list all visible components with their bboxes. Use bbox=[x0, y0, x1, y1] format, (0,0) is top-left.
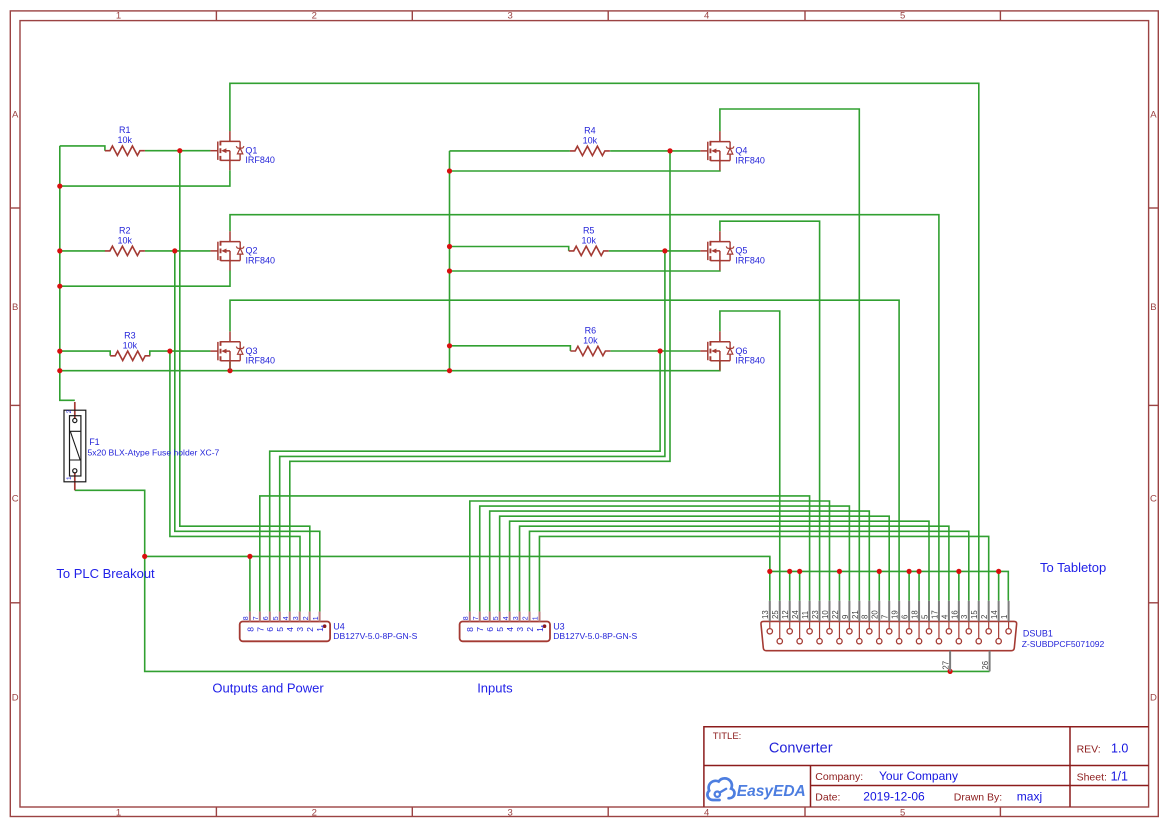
wire DSUB bus stub pin14 bbox=[998, 571, 1000, 600]
svg-text:2: 2 bbox=[523, 616, 530, 620]
svg-text:2: 2 bbox=[305, 627, 315, 632]
svg-text:8: 8 bbox=[243, 616, 250, 620]
wire net U3p5-DSUB bbox=[500, 516, 890, 611]
resistor R3 bbox=[110, 330, 150, 360]
svg-text:3: 3 bbox=[508, 11, 513, 22]
svg-text:4: 4 bbox=[704, 807, 709, 818]
connector DSUB1 bbox=[761, 601, 1105, 672]
title block bbox=[704, 727, 1149, 807]
svg-text:EasyEDA: EasyEDA bbox=[737, 783, 806, 800]
wire Q5 drain to DSUB pin23 bbox=[720, 221, 820, 601]
svg-text:D: D bbox=[12, 693, 19, 704]
svg-text:IRF840: IRF840 bbox=[246, 255, 276, 265]
resistor R6 bbox=[570, 326, 610, 356]
wire U4 pin8 drop bbox=[249, 556, 251, 611]
svg-text:Q2: Q2 bbox=[246, 246, 258, 256]
wire R5 input bbox=[450, 247, 569, 251]
svg-text:R2: R2 bbox=[119, 226, 131, 236]
svg-text:10k: 10k bbox=[123, 341, 138, 351]
svg-text:10k: 10k bbox=[581, 236, 596, 246]
svg-text:7: 7 bbox=[253, 616, 260, 620]
wire main bus PLC-DSUB bbox=[145, 556, 770, 571]
svg-text:Z-SUBDPCF5071092: Z-SUBDPCF5071092 bbox=[1022, 639, 1105, 649]
wire DSUB bus stub pin6 bbox=[908, 571, 910, 600]
wire R4 row bbox=[450, 150, 570, 152]
wire net U4p7-DSUBp11 bbox=[260, 496, 810, 612]
svg-text:F1: F1 bbox=[89, 437, 100, 447]
svg-text:4: 4 bbox=[285, 627, 295, 632]
svg-text:26: 26 bbox=[981, 661, 990, 670]
svg-text:B: B bbox=[12, 302, 18, 313]
wire DSUB bus stub pin18 bbox=[918, 571, 920, 600]
svg-text:Q5: Q5 bbox=[735, 246, 747, 256]
svg-text:REV:: REV: bbox=[1077, 743, 1101, 755]
wire DSUB bus stub pin22 bbox=[838, 571, 840, 600]
svg-text:7: 7 bbox=[475, 627, 485, 632]
svg-text:2: 2 bbox=[312, 807, 317, 818]
svg-text:10k: 10k bbox=[583, 136, 598, 146]
svg-text:1: 1 bbox=[116, 807, 121, 818]
transistor Q6 bbox=[700, 331, 765, 370]
wire R5 output to Q5 gate bbox=[609, 250, 701, 252]
svg-text:maxj: maxj bbox=[1017, 789, 1042, 803]
fuse F1 bbox=[64, 402, 220, 490]
wire Q4 source loop bbox=[450, 170, 720, 173]
svg-text:DSUB1: DSUB1 bbox=[1023, 628, 1053, 638]
svg-text:27: 27 bbox=[942, 661, 951, 670]
svg-text:8: 8 bbox=[861, 615, 870, 619]
svg-text:5: 5 bbox=[920, 614, 929, 619]
svg-text:18: 18 bbox=[910, 610, 919, 619]
wire net U3p6-DSUB bbox=[490, 511, 870, 611]
svg-text:14: 14 bbox=[990, 610, 999, 619]
wire Q2 source loop bbox=[60, 270, 230, 286]
svg-text:R1: R1 bbox=[119, 125, 131, 135]
transistor Q3 bbox=[210, 332, 275, 371]
wire R4 output to Q4 gate bbox=[610, 150, 700, 152]
wire net U3p4-DSUB bbox=[510, 521, 929, 611]
svg-text:Your Company: Your Company bbox=[879, 769, 958, 783]
svg-text:7: 7 bbox=[255, 627, 265, 632]
wire net R6-U4p6 bbox=[270, 351, 660, 612]
svg-text:10k: 10k bbox=[118, 135, 133, 145]
svg-text:1: 1 bbox=[66, 476, 73, 480]
resistor R1 bbox=[105, 125, 145, 156]
svg-text:5: 5 bbox=[900, 11, 905, 22]
svg-text:13: 13 bbox=[761, 610, 770, 619]
svg-text:11: 11 bbox=[801, 611, 810, 619]
svg-text:4: 4 bbox=[283, 616, 290, 620]
svg-text:Q4: Q4 bbox=[735, 146, 747, 156]
wire R1 output to Q1 gate bbox=[145, 150, 211, 152]
svg-text:5: 5 bbox=[493, 616, 500, 620]
wire right rail bbox=[449, 151, 451, 371]
wire net R3-U4p3 bbox=[170, 351, 300, 611]
connector U3 bbox=[460, 612, 638, 642]
svg-text:19: 19 bbox=[891, 610, 900, 619]
resistor R2 bbox=[105, 226, 145, 256]
wire R1 input bbox=[60, 146, 105, 151]
svg-text:2: 2 bbox=[525, 627, 535, 632]
svg-text:TITLE:: TITLE: bbox=[713, 731, 742, 742]
resistor R5 bbox=[569, 226, 609, 256]
svg-text:6: 6 bbox=[901, 615, 910, 619]
wire DSUB bus stub pin24 bbox=[799, 571, 801, 600]
wire left rail bbox=[60, 146, 75, 400]
svg-text:To Tabletop: To Tabletop bbox=[1040, 560, 1106, 575]
svg-text:1: 1 bbox=[533, 616, 540, 620]
transistor Q5 bbox=[700, 231, 765, 270]
wire R3 output jog bbox=[150, 351, 211, 356]
svg-text:Q6: Q6 bbox=[735, 346, 747, 356]
svg-text:3: 3 bbox=[295, 627, 305, 632]
svg-text:24: 24 bbox=[791, 610, 800, 619]
svg-text:1/1: 1/1 bbox=[1111, 769, 1128, 783]
svg-text:3: 3 bbox=[293, 616, 300, 620]
resistor R4 bbox=[570, 126, 610, 156]
svg-text:IRF840: IRF840 bbox=[245, 155, 275, 165]
svg-text:Outputs and Power: Outputs and Power bbox=[212, 681, 324, 696]
transistor Q2 bbox=[210, 231, 275, 270]
wire net U3p2-DSUB bbox=[530, 531, 969, 611]
svg-text:6: 6 bbox=[485, 627, 495, 632]
svg-text:3: 3 bbox=[513, 616, 520, 620]
svg-text:8: 8 bbox=[463, 616, 470, 620]
svg-text:2: 2 bbox=[66, 410, 73, 414]
svg-text:R5: R5 bbox=[583, 226, 595, 236]
svg-text:DB127V-5.0-8P-GN-S: DB127V-5.0-8P-GN-S bbox=[553, 631, 637, 641]
svg-text:U3: U3 bbox=[553, 621, 565, 631]
svg-text:1: 1 bbox=[313, 616, 320, 620]
wire net R2-U4p1 bbox=[175, 251, 320, 612]
wire R3 input bbox=[60, 351, 110, 356]
svg-text:3: 3 bbox=[508, 807, 513, 818]
svg-text:5: 5 bbox=[495, 627, 505, 632]
svg-text:A: A bbox=[1150, 110, 1157, 121]
svg-text:22: 22 bbox=[831, 610, 840, 619]
svg-text:10k: 10k bbox=[118, 236, 133, 246]
wire R2 row bbox=[60, 250, 105, 252]
svg-text:Inputs: Inputs bbox=[477, 681, 513, 696]
wire fuse to PLC node bbox=[75, 490, 990, 671]
svg-text:17: 17 bbox=[930, 610, 939, 619]
svg-text:D: D bbox=[1150, 693, 1157, 704]
svg-text:8: 8 bbox=[465, 627, 475, 632]
svg-text:15: 15 bbox=[970, 610, 979, 619]
EasyEDA logo bbox=[707, 778, 805, 800]
svg-text:4: 4 bbox=[704, 11, 709, 22]
wire Q4 drain to DSUB pin21 bbox=[720, 109, 859, 601]
svg-text:10k: 10k bbox=[583, 336, 598, 346]
wire net U3p3-DSUB bbox=[520, 526, 949, 611]
svg-text:Q3: Q3 bbox=[246, 346, 258, 356]
svg-text:Sheet:: Sheet: bbox=[1077, 771, 1107, 783]
svg-text:1.0: 1.0 bbox=[1111, 741, 1128, 755]
transistor Q4 bbox=[700, 131, 765, 170]
svg-text:R3: R3 bbox=[124, 330, 136, 340]
transistor Q1 bbox=[210, 131, 275, 170]
svg-text:6: 6 bbox=[483, 616, 490, 620]
svg-text:Converter: Converter bbox=[769, 741, 833, 757]
wire net R1-U4p2 bbox=[180, 151, 310, 612]
svg-text:IRF840: IRF840 bbox=[246, 356, 276, 366]
svg-text:2: 2 bbox=[303, 616, 310, 620]
svg-text:R6: R6 bbox=[585, 326, 597, 336]
svg-text:2: 2 bbox=[980, 615, 989, 619]
wire net R4-U4p4 bbox=[290, 151, 670, 612]
svg-text:25: 25 bbox=[771, 610, 780, 619]
wire Q1 source loop bbox=[60, 170, 230, 186]
svg-text:20: 20 bbox=[871, 610, 880, 619]
svg-text:5: 5 bbox=[273, 616, 280, 620]
wire DSUB bus stub pin12 bbox=[789, 571, 791, 600]
svg-text:6: 6 bbox=[265, 627, 275, 632]
svg-text:DB127V-5.0-8P-GN-S: DB127V-5.0-8P-GN-S bbox=[333, 631, 417, 641]
wire net U3p1-DSUB bbox=[539, 536, 988, 611]
svg-text:To PLC Breakout: To PLC Breakout bbox=[56, 566, 155, 581]
wire DSUB bus stub pin16 bbox=[958, 571, 960, 600]
svg-text:5: 5 bbox=[275, 627, 285, 632]
wire Q5 source loop bbox=[450, 269, 720, 272]
svg-text:IRF840: IRF840 bbox=[735, 255, 765, 265]
svg-text:C: C bbox=[12, 494, 19, 505]
wire Q3-Q6 source loop bbox=[60, 361, 720, 371]
svg-text:7: 7 bbox=[473, 616, 480, 620]
svg-text:3: 3 bbox=[960, 615, 969, 619]
svg-text:2: 2 bbox=[312, 11, 317, 22]
svg-text:10: 10 bbox=[821, 610, 830, 619]
wire net U3p8-DSUB bbox=[470, 501, 830, 612]
svg-text:3: 3 bbox=[515, 627, 525, 632]
svg-text:1: 1 bbox=[1000, 615, 1009, 619]
svg-text:IRF840: IRF840 bbox=[735, 355, 765, 365]
svg-text:9: 9 bbox=[841, 615, 850, 619]
wire net U3p7-DSUB bbox=[480, 506, 850, 611]
svg-text:IRF840: IRF840 bbox=[735, 155, 765, 165]
svg-text:5: 5 bbox=[900, 807, 905, 818]
svg-text:4: 4 bbox=[505, 627, 515, 632]
wire R6 input bbox=[450, 346, 571, 351]
svg-text:2019-12-06: 2019-12-06 bbox=[863, 789, 925, 803]
wire Q3 source stub bbox=[229, 362, 231, 371]
wire Q1 drain to DSUB pin15 bbox=[230, 83, 979, 601]
svg-text:4: 4 bbox=[940, 614, 949, 619]
connector U4 bbox=[240, 612, 418, 642]
wire Q6 drain to DSUB pin25 bbox=[720, 311, 780, 601]
svg-text:R4: R4 bbox=[584, 126, 596, 136]
svg-text:7: 7 bbox=[881, 615, 890, 619]
wire R6 output to Q6 gate bbox=[610, 350, 700, 352]
svg-text:4: 4 bbox=[503, 616, 510, 620]
svg-text:21: 21 bbox=[851, 610, 860, 619]
svg-text:Q1: Q1 bbox=[245, 146, 257, 156]
svg-text:Date:: Date: bbox=[815, 791, 840, 803]
svg-text:1: 1 bbox=[116, 11, 121, 22]
svg-text:23: 23 bbox=[811, 610, 820, 619]
svg-text:16: 16 bbox=[950, 610, 959, 619]
svg-text:5x20 BLX-Atype Fuse holder XC-: 5x20 BLX-Atype Fuse holder XC-7 bbox=[88, 447, 220, 457]
svg-text:Drawn By:: Drawn By: bbox=[954, 791, 1002, 803]
svg-text:C: C bbox=[1150, 494, 1157, 505]
svg-text:U4: U4 bbox=[333, 621, 345, 631]
wire DSUB bus stub pin20 bbox=[878, 571, 880, 600]
svg-text:6: 6 bbox=[263, 616, 270, 620]
svg-text:B: B bbox=[1150, 302, 1156, 313]
svg-text:Company:: Company: bbox=[815, 771, 863, 783]
svg-text:12: 12 bbox=[781, 610, 790, 619]
wire DSUB bus bbox=[770, 571, 1009, 600]
svg-text:8: 8 bbox=[245, 627, 255, 632]
wire Q3 drain to DSUB pin19 bbox=[230, 300, 899, 601]
svg-text:A: A bbox=[12, 110, 19, 121]
wire R2 output to Q2 gate bbox=[145, 250, 211, 252]
wire Q2 drain to DSUB pin17 bbox=[230, 215, 939, 601]
wire net R5-U4p5 bbox=[280, 251, 665, 612]
wire DSUB pin13 drop bbox=[769, 556, 771, 600]
